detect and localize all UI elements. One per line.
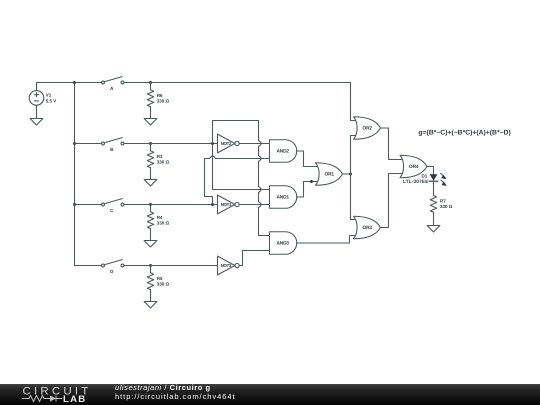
- node junction R4 tap: [149, 203, 152, 206]
- wire row D: [124, 265, 217, 267]
- svg-text:OR4: OR4: [409, 164, 419, 170]
- and-gate AND3: [270, 232, 297, 255]
- wire V1 bottom: [36, 105, 38, 118]
- svg-text:LTL-307EE: LTL-307EE: [403, 179, 429, 185]
- wire LED to R7: [433, 181, 435, 195]
- svg-text:330 Ω: 330 Ω: [157, 282, 170, 287]
- NOT gate NOT2: [218, 134, 240, 153]
- svg-text:330 Ω: 330 Ω: [440, 204, 453, 209]
- svg-text:g=(B*~C)+(~B*C)+(A)+(B*~D): g=(B*~C)+(~B*C)+(A)+(B*~D): [418, 129, 510, 136]
- NOT gate NOT3: [218, 256, 240, 275]
- wire NOT2 output to AND2: [239, 143, 269, 145]
- resistor R7: [430, 196, 436, 226]
- wire row C to NOT1: [124, 204, 217, 206]
- node junction R3 tap: [149, 142, 152, 145]
- logo diode: [50, 396, 56, 402]
- footer bar: [0, 384, 540, 405]
- wire left bus: [74, 83, 76, 266]
- wire OR1 output: [343, 173, 351, 175]
- svg-text:330 Ω: 330 Ω: [157, 221, 170, 226]
- label R6 value: [157, 93, 170, 104]
- wire OR3 output to OR4: [381, 174, 405, 228]
- label switch C: [110, 208, 114, 213]
- or-gate OR3: [354, 216, 381, 239]
- svg-text:R6: R6: [157, 93, 163, 98]
- svg-text:OR1: OR1: [324, 172, 334, 178]
- NOT gate NOT1: [218, 195, 240, 214]
- switch A: [75, 77, 151, 84]
- label R3 value: [157, 154, 170, 165]
- wire AND2 output to OR1: [297, 151, 321, 167]
- label switch B: [110, 147, 114, 152]
- attribution text: [115, 383, 236, 402]
- svg-text:D1: D1: [422, 173, 428, 178]
- svg-text:A: A: [110, 86, 114, 91]
- logo squiggle wire: [22, 396, 50, 402]
- resistor R6: [147, 83, 153, 119]
- svg-text:5.5 V: 5.5 V: [46, 98, 57, 103]
- ground below R7: [427, 226, 440, 233]
- svg-text:R5: R5: [157, 276, 163, 281]
- resistor R5: [147, 266, 153, 302]
- and-gate AND2: [270, 140, 297, 163]
- wire C up jog: [205, 159, 213, 205]
- wire B bus to AND3 input: [259, 235, 270, 237]
- svg-text:330 Ω: 330 Ω: [157, 99, 170, 104]
- node junction OR1 output: [349, 173, 352, 176]
- node junction bus row B: [73, 142, 76, 145]
- resistor R4: [147, 205, 153, 241]
- wire row A to OR2: [124, 83, 358, 121]
- wire AND3 output to OR3: [297, 236, 359, 244]
- ground below R6: [144, 119, 157, 126]
- ground below R3: [144, 180, 157, 187]
- svg-text:R7: R7: [440, 198, 446, 203]
- svg-text:R3: R3: [157, 154, 163, 159]
- wire row B to NOT2: [124, 143, 217, 145]
- node junction bus row C: [73, 203, 76, 206]
- node junction bus row A: [73, 81, 76, 84]
- wire OR4 output to LED: [427, 167, 434, 175]
- node junction R5 tap: [149, 264, 152, 267]
- resistor R3: [147, 144, 153, 180]
- ground below R4: [144, 241, 157, 248]
- svg-text:NOT1: NOT1: [221, 202, 232, 207]
- label logic equation g: [418, 129, 510, 136]
- switch D: [75, 260, 151, 267]
- node junction C tee: [211, 203, 214, 206]
- svg-text:V1: V1: [46, 93, 52, 98]
- voltage source V1: [29, 91, 44, 106]
- label R7 value: [440, 198, 453, 209]
- node junction B tee: [211, 142, 214, 145]
- and-gate AND1: [270, 186, 297, 209]
- svg-text:D: D: [110, 269, 114, 274]
- wire B down to AND1 input: [213, 144, 270, 190]
- ground below R5: [144, 302, 157, 309]
- wire OR2 output to OR4: [381, 128, 405, 160]
- svg-text:AND2: AND2: [276, 149, 289, 155]
- wire OR1 up to OR2: [351, 136, 359, 175]
- or-gate OR4: [400, 155, 427, 178]
- svg-text:B: B: [110, 147, 114, 152]
- or-gate OR2: [354, 117, 381, 140]
- label R5 value: [157, 276, 170, 287]
- label D1 part number: [403, 179, 429, 185]
- label V1 value: [46, 93, 57, 104]
- wire C to AND2 input: [215, 158, 269, 160]
- svg-text:AND3: AND3: [276, 241, 289, 247]
- switch C: [75, 199, 151, 206]
- wire C hop over B vertical: [210, 156, 216, 159]
- wire B bus vertical with hops: [259, 121, 262, 236]
- wire V1 top to row A: [37, 83, 75, 91]
- ground below V1: [30, 119, 43, 126]
- svg-text:OR3: OR3: [362, 225, 372, 231]
- label R4 value: [157, 215, 170, 226]
- label switch D: [110, 269, 114, 274]
- CircuitLab logo: [22, 385, 94, 404]
- LED D1: [429, 174, 438, 181]
- node junction R6 tap: [149, 81, 152, 84]
- svg-text:NOT3: NOT3: [221, 263, 232, 268]
- wire NOT3 output to AND3: [239, 251, 269, 266]
- svg-text:NOT2: NOT2: [221, 141, 232, 146]
- wire AND1 output to OR1: [297, 182, 321, 198]
- label switch A: [110, 86, 114, 91]
- svg-text:C: C: [110, 208, 114, 213]
- label D1: [422, 173, 428, 178]
- svg-text:330 Ω: 330 Ω: [157, 160, 170, 165]
- wire B up over top: [213, 121, 259, 144]
- LED light arrows: [441, 173, 447, 186]
- svg-text:OR2: OR2: [362, 126, 372, 132]
- wire NOT1 output to AND1: [239, 204, 269, 206]
- svg-text:AND1: AND1: [276, 195, 289, 201]
- svg-text:R4: R4: [157, 215, 163, 220]
- switch B: [75, 138, 151, 145]
- wire OR1 down to OR3: [351, 174, 359, 220]
- node junction OR1 lower input: [310, 180, 313, 183]
- or-gate OR1: [316, 163, 343, 186]
